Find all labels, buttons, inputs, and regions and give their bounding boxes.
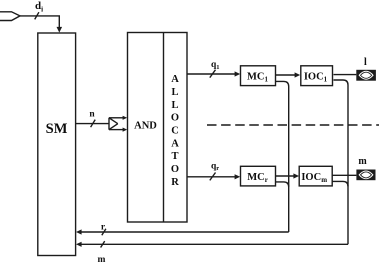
slash on q1 wire	[210, 70, 216, 78]
slash on m wire	[101, 241, 105, 247]
slash on d_i wire	[35, 12, 39, 19]
wire MC1 to IOC1	[276, 74, 298, 76]
svg-text:L: L	[171, 87, 178, 98]
slash on qr wire	[210, 173, 216, 181]
wire r feedback	[80, 231, 289, 233]
arrowhead into IOCm	[293, 173, 299, 178]
svg-text:O: O	[171, 113, 179, 124]
wire MCr to IOCm	[276, 175, 296, 177]
svg-text:AND: AND	[134, 120, 157, 131]
svg-text:O: O	[171, 164, 179, 175]
arrowhead m into SM	[76, 242, 82, 247]
block MC1	[241, 66, 276, 86]
wire d_i	[20, 16, 59, 28]
block MCr	[241, 166, 276, 186]
svg-text:n: n	[89, 110, 95, 120]
arrowhead into MC1	[235, 71, 241, 76]
wire qr (allocator to MCr)	[187, 176, 236, 178]
input flag terminal	[0, 12, 20, 21]
block IOC1	[301, 66, 333, 86]
wire n (SM to driver)	[76, 123, 109, 125]
slash on r wire	[102, 229, 106, 235]
svg-text:R: R	[171, 177, 179, 188]
svg-text:C: C	[171, 126, 179, 137]
block AND / ALLOCATOR outer box	[128, 33, 188, 223]
label ALLOCATOR vertical	[171, 74, 179, 188]
arrowhead r into SM	[76, 229, 82, 234]
arrowhead into MCr	[235, 174, 241, 179]
wire m feedback	[80, 243, 348, 245]
svg-text:T: T	[171, 151, 178, 162]
dashed separator line	[207, 124, 379, 126]
svg-text:SM: SM	[46, 121, 68, 137]
divider between AND and ALLOCATOR	[163, 33, 165, 223]
wire IOCm to connector m	[332, 174, 356, 176]
wire IOC1 lower output down	[334, 80, 349, 244]
wire IOCm lower output joining IOC column	[332, 181, 348, 186]
svg-text:l: l	[364, 57, 367, 68]
arrowhead into SM top	[57, 27, 63, 33]
connector symbol line 1	[356, 70, 376, 81]
svg-text:A: A	[171, 138, 179, 149]
arrowhead into IOC1	[295, 72, 301, 77]
driver symbol between SM and AND	[109, 116, 127, 132]
block SM	[38, 33, 76, 256]
wire MC1 lower output down	[276, 81, 289, 232]
svg-text:L: L	[171, 100, 178, 111]
wire q1 (allocator to MC1)	[187, 73, 236, 75]
slash on n wire	[91, 120, 96, 128]
block IOCm	[299, 166, 332, 186]
wire IOC1 to connector 1	[334, 74, 357, 76]
wire MCr lower output joining MC column	[276, 182, 289, 187]
svg-text:A: A	[171, 74, 179, 85]
svg-text:m: m	[358, 156, 367, 167]
svg-text:m: m	[98, 255, 106, 262]
connector symbol line m	[356, 170, 375, 181]
